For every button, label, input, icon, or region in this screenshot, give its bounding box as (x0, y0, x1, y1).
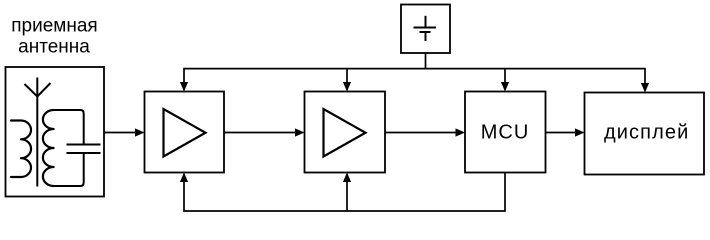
svg-text:дисплей: дисплей (604, 122, 689, 144)
secondary coil L2 (43, 110, 54, 186)
wire: coil top to capacitor (54, 110, 84, 145)
arrowhead into U2 bottom (343, 173, 351, 183)
antenna box (6, 67, 105, 197)
capacitor C1 bottom plate (67, 152, 101, 154)
amplifier triangle U1 (164, 109, 206, 157)
display box (585, 93, 705, 175)
wire: MCU to display (546, 132, 577, 134)
feedback wire from MCU bottom (184, 173, 505, 212)
wire: U2 to MCU (385, 132, 457, 134)
MCU box (465, 92, 546, 173)
arrowhead into U1 bottom (180, 173, 188, 183)
battery box (401, 5, 450, 54)
power branch wire into MCU (504, 69, 506, 83)
feedback branch wire to U2 bottom (346, 181, 348, 211)
amplifier triangle U2 (324, 109, 366, 157)
label "приемная антенна" (11, 15, 97, 57)
svg-text:приемная: приемная (11, 15, 97, 36)
svg-text:антенна: антенна (18, 37, 90, 58)
arrowhead into U2 left (295, 128, 305, 136)
antenna mast (36, 78, 38, 187)
wire: antenna to U1 (104, 132, 136, 134)
wire: capacitor to coil bottom (54, 153, 84, 186)
wire: U1 to U2 (224, 132, 296, 134)
arrowhead into display top (641, 83, 649, 93)
arrowhead into U1 top (180, 82, 188, 92)
amplifier box U2 (305, 92, 386, 173)
power bus wire (184, 69, 645, 84)
wire: battery to power bus (425, 53, 427, 69)
battery cell BT1 (414, 16, 437, 41)
arrowhead into U1 left (135, 128, 145, 136)
arrowhead into display left (575, 128, 585, 136)
svg-text:MCU: MCU (481, 122, 530, 144)
arrowhead into MCU left (456, 128, 466, 136)
primary coil L1 (11, 121, 31, 178)
antenna fork (25, 83, 51, 97)
amplifier box U1 (145, 92, 225, 173)
arrowhead into U2 top (343, 82, 351, 92)
arrowhead into MCU top (501, 82, 509, 92)
capacitor C1 top plate (67, 144, 101, 146)
power branch wire into U2 (346, 69, 348, 83)
